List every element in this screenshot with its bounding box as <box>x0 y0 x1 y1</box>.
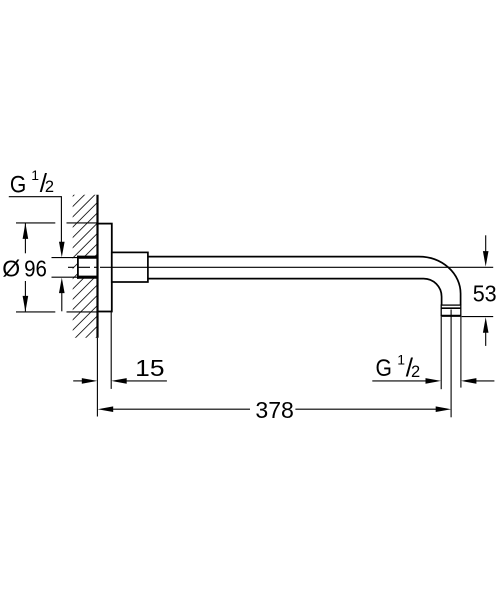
extension line, flange bottom (dim 96) <box>16 311 98 313</box>
arrowhead dim G1/2 right (points left) <box>461 378 477 384</box>
leader line G1/2 top <box>9 197 62 246</box>
thread label G 1/2 bottom <box>376 351 421 382</box>
svg-text:G: G <box>10 171 26 198</box>
svg-text:1: 1 <box>31 167 39 183</box>
svg-text:2: 2 <box>45 178 54 196</box>
arrowhead dim 96 top <box>23 223 29 239</box>
extension line, nipple top edge <box>52 257 78 259</box>
svg-text:G: G <box>376 355 392 382</box>
extension line, wall face bottom (dim 15/378) <box>96 338 98 417</box>
arrowhead G1/2 leader upper (points down at nipple top) <box>59 242 65 257</box>
arm tube outer contour (top line + outer bend) <box>148 257 461 306</box>
dimension line 96 (vertical, broken for text) <box>24 223 26 311</box>
svg-text:378: 378 <box>255 397 294 423</box>
thread label G 1/2 top <box>10 167 54 198</box>
wall flange / escutcheon (dia 96) <box>98 224 112 312</box>
svg-text:15: 15 <box>135 355 164 381</box>
wall face line <box>96 195 98 338</box>
wall section hatching <box>62 159 110 382</box>
extension line, outlet left edge <box>440 317 442 389</box>
pipe centerline (dash-dot then solid, also 53 top extension) <box>68 266 493 268</box>
leader tail below lower arrowhead <box>61 288 63 311</box>
svg-text:Ø: Ø <box>2 255 20 281</box>
arrowhead G1/2 leader lower (points up at nipple bottom) <box>59 278 65 294</box>
arrowhead dim 53 lower (points up) <box>483 317 489 333</box>
extension line, fitting bottom (dim 53) <box>462 316 494 318</box>
arrowhead dim 378 left (points left at wall face) <box>98 406 114 412</box>
dimension G1/2 bottom left tail <box>372 380 426 382</box>
arrowhead dim 53 upper (points down) <box>483 251 489 267</box>
dimension 53 lower arrow line <box>485 332 487 346</box>
arrowhead dim 15 left (points right at wall face) <box>82 378 98 384</box>
extension line, nipple bottom edge <box>52 276 78 278</box>
dimension G1/2 bottom right tail <box>476 380 495 382</box>
value label diameter 96 <box>2 255 47 281</box>
arrowhead dim G1/2 left (points right) <box>426 378 442 384</box>
svg-text:53: 53 <box>473 280 497 306</box>
svg-text:1: 1 <box>397 351 405 367</box>
dimension 15 right tail <box>126 380 167 382</box>
extension line, flange top (dim 96) <box>16 222 98 224</box>
dimension 15 left tail <box>73 380 83 382</box>
extension line, outlet right edge <box>460 317 462 388</box>
dimension 53 upper arrow line <box>485 235 487 252</box>
arm hub (connector box at flange) <box>112 252 148 282</box>
outlet end fitting (G1/2 outlet) <box>441 305 462 316</box>
arrowhead dim 15 right (points left at flange edge) <box>111 378 127 384</box>
extension line, flange right edge bottom (dim 15) <box>110 312 112 389</box>
extension line, outlet centerline (dim 378) <box>450 310 452 418</box>
svg-text:96: 96 <box>24 255 47 281</box>
arm tube inner contour (bottom line + inner bend) <box>148 279 442 306</box>
threaded wall nipple (G1/2 inlet) <box>77 256 98 279</box>
dimension line 378 (broken for text) <box>113 408 437 410</box>
arrowhead dim 378 right (points right at outlet centerline) <box>436 406 452 412</box>
arrowhead dim 96 bottom <box>23 296 29 312</box>
svg-text:2: 2 <box>411 363 420 381</box>
